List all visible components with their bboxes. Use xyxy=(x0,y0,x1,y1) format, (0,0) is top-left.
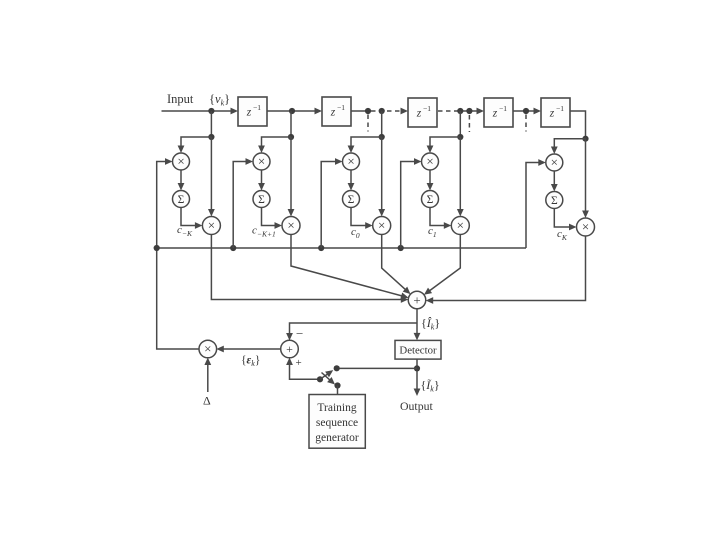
accumulator S4 (sigma) xyxy=(422,191,439,208)
svg-text:z: z xyxy=(492,108,498,120)
training sequence generator block xyxy=(309,395,365,449)
wire tap1 signal down to weight multiplier xyxy=(208,137,215,217)
label Input xyxy=(167,92,194,106)
wire branch to error comparator xyxy=(286,323,417,341)
wire W2 output to summer xyxy=(291,235,409,300)
svg-text:−: − xyxy=(296,326,303,341)
node tap5 jog junction xyxy=(582,136,588,142)
label {I_k} decision xyxy=(421,378,440,394)
delay element D2 (z^-1) xyxy=(322,97,351,126)
label coefficient tap 5 (c_K) xyxy=(557,228,568,242)
multiplier M4 (error x input) xyxy=(422,153,439,170)
accumulator S2 (sigma) xyxy=(253,191,270,208)
node tap4 jog junction xyxy=(457,134,463,140)
svg-text:×: × xyxy=(204,341,211,356)
svg-text:z: z xyxy=(246,107,252,119)
svg-text:Detector: Detector xyxy=(399,345,437,357)
wire M3 to accumulator xyxy=(348,170,355,191)
wire tap2 jog to multiplier xyxy=(258,137,291,153)
svg-text:×: × xyxy=(378,218,385,233)
wire feedback up to M2 xyxy=(233,158,253,248)
delay element D3 (z^-1) xyxy=(408,98,437,127)
label coefficient tap 4 (c_1) xyxy=(428,225,437,239)
svg-text:{εk}: {εk} xyxy=(241,355,260,369)
accumulator S5 (sigma) xyxy=(546,192,563,209)
wire S2 to weight multiplier xyxy=(262,208,283,229)
accumulator S1 (sigma) xyxy=(173,191,190,208)
wire S4 to weight multiplier xyxy=(430,208,451,229)
switch upper throw contact xyxy=(334,365,340,371)
delay element D1 (z^-1) xyxy=(238,97,267,126)
wire D4 to D5 xyxy=(513,108,541,115)
svg-text:+: + xyxy=(286,342,293,356)
node feedback junction tap4 xyxy=(398,245,404,251)
dashed continuation wire down xyxy=(367,115,369,132)
multiplier W5 (tap weight tap 5 (c_K)) xyxy=(577,218,595,236)
wire D1 to D2 xyxy=(267,108,322,115)
wire tap4 jog to multiplier xyxy=(427,137,461,153)
wire tap5 signal down to weight multiplier xyxy=(582,139,589,218)
svg-text:+: + xyxy=(413,293,420,308)
wire comparator to error scaler xyxy=(216,346,281,353)
node label {v_k} xyxy=(209,92,230,108)
node v_k junction xyxy=(208,108,214,114)
svg-text:Σ: Σ xyxy=(427,194,434,206)
detector block xyxy=(395,340,441,359)
wire S1 to weight multiplier xyxy=(181,208,202,229)
svg-text:{vk}: {vk} xyxy=(209,92,230,108)
label {eps_k} error xyxy=(241,355,260,369)
wire W3 output to summer xyxy=(382,235,411,295)
wire S3 to weight multiplier xyxy=(351,208,373,229)
node tap4 takeoff xyxy=(457,108,463,114)
wire D5 output to tap5 xyxy=(570,111,586,137)
svg-text:generator: generator xyxy=(315,432,359,444)
node after tap4 takeoff (dashed branch) xyxy=(466,108,472,114)
svg-text:Σ: Σ xyxy=(178,194,185,206)
dashed continuation wire down xyxy=(468,115,470,132)
label minus sign xyxy=(296,326,303,341)
comparator A2 (+/-) xyxy=(281,340,299,358)
wire lower contact to training generator xyxy=(337,386,339,395)
svg-text:Input: Input xyxy=(167,92,194,106)
wire detector output to switch upper contact xyxy=(337,367,417,369)
wire error scaler output up left side to M1 xyxy=(157,158,200,349)
svg-text:×: × xyxy=(457,218,464,233)
label coefficient tap 3 (c_0) xyxy=(351,226,360,240)
wire tap2 takeoff down xyxy=(290,111,292,137)
svg-text:{Ĩk}: {Ĩk} xyxy=(421,378,440,394)
wire tap1 takeoff down xyxy=(210,111,212,137)
multiplier M5 (error x input) xyxy=(546,154,563,171)
wire tap3 takeoff down xyxy=(381,111,383,137)
label plus sign xyxy=(296,357,302,369)
svg-text:z: z xyxy=(330,107,336,119)
multiplier M2 (error x input) xyxy=(253,153,270,170)
wire switch pole to comparator plus input xyxy=(286,358,320,380)
wire tap3 jog to multiplier xyxy=(348,137,382,153)
svg-text:Σ: Σ xyxy=(551,195,558,207)
wire D3 output (dashed section) xyxy=(438,108,484,115)
node feedback junction tap3 xyxy=(318,245,324,251)
multiplier W1 (tap weight tap 1 (c_-K)) xyxy=(202,217,220,235)
svg-text:Δ: Δ xyxy=(203,394,211,408)
wire error feedback bus xyxy=(157,247,526,249)
svg-text:z: z xyxy=(549,108,555,120)
svg-text:sequence: sequence xyxy=(316,417,358,429)
svg-text:Σ: Σ xyxy=(348,194,355,206)
svg-text:z: z xyxy=(416,108,422,120)
node tap3 jog junction xyxy=(379,134,385,140)
svg-text:×: × xyxy=(582,219,589,234)
wire tap4 signal down to weight multiplier xyxy=(457,137,464,217)
multiplier M1 (error x input) xyxy=(173,153,190,170)
wire M4 to accumulator xyxy=(427,170,434,191)
svg-text:Training: Training xyxy=(317,402,356,414)
svg-text:−1: −1 xyxy=(556,104,564,113)
multiplier M0 (error scaler) xyxy=(199,340,217,358)
wire W5 output to summer xyxy=(426,236,586,304)
wire W1 output to summer xyxy=(211,235,408,303)
summing junction A1 (+) xyxy=(408,291,426,309)
multiplier W3 (tap weight tap 3 (c_0)) xyxy=(373,217,391,235)
svg-text:{Îk}: {Îk} xyxy=(421,316,440,332)
wire feedback up to M3 xyxy=(321,158,342,248)
svg-text:×: × xyxy=(208,218,215,233)
node detector output branch xyxy=(414,365,420,371)
svg-text:×: × xyxy=(551,155,558,170)
svg-text:−1: −1 xyxy=(337,103,345,112)
label coefficient tap 2 (c_-K+1) xyxy=(252,225,276,239)
wire feedback up to M4 xyxy=(401,158,422,248)
svg-text:−1: −1 xyxy=(423,104,431,113)
wire detector output xyxy=(414,359,421,396)
svg-text:×: × xyxy=(347,154,354,169)
svg-text:×: × xyxy=(287,218,294,233)
wire D2 output (dashed section) xyxy=(351,108,408,115)
wire M5 to accumulator xyxy=(551,171,558,192)
node after D1 xyxy=(289,108,295,114)
wire tap1 jog to multiplier xyxy=(178,137,212,153)
wire W4 output to summer xyxy=(424,235,460,295)
svg-text:−1: −1 xyxy=(253,103,261,112)
label {I_k} estimate xyxy=(421,316,440,332)
multiplier M3 (error x input) xyxy=(343,153,360,170)
svg-text:Output: Output xyxy=(400,399,433,413)
svg-text:−1: −1 xyxy=(499,104,507,113)
switch arm toward lower contact xyxy=(322,373,336,385)
delay element D4 (z^-1) xyxy=(484,98,513,127)
label coefficient tap 1 (c_-K) xyxy=(177,224,193,238)
delay element D5 (z^-1) xyxy=(541,98,570,127)
wire tap5 jog to multiplier xyxy=(551,139,586,154)
svg-text:Σ: Σ xyxy=(258,194,265,206)
node tap3 takeoff xyxy=(379,108,385,114)
dashed continuation wire down xyxy=(525,115,527,132)
wire delta input xyxy=(204,358,211,393)
switch lower throw contact xyxy=(334,382,340,388)
wire M2 to accumulator xyxy=(258,170,265,191)
node feedback junction tap1 xyxy=(154,245,160,251)
wire S5 to weight multiplier xyxy=(554,209,576,231)
node after D4 (dashed branch) xyxy=(523,108,529,114)
wire M1 to accumulator xyxy=(178,170,185,191)
wire feedback up to M5 xyxy=(526,159,546,248)
label Output xyxy=(400,399,433,413)
node after D2 (dashed branch) xyxy=(365,108,371,114)
node feedback junction tap2 xyxy=(230,245,236,251)
wire tap3 signal down to weight multiplier xyxy=(378,137,385,217)
wire input to D1 xyxy=(162,108,239,115)
node tap1 jog junction xyxy=(208,134,214,140)
svg-text:×: × xyxy=(426,154,433,169)
multiplier W4 (tap weight tap 4 (c_1)) xyxy=(451,217,469,235)
svg-text:×: × xyxy=(177,154,184,169)
wire tap2 signal down to weight multiplier xyxy=(288,137,295,217)
accumulator S3 (sigma) xyxy=(343,191,360,208)
wire summer output to detector xyxy=(414,309,421,341)
svg-text:+: + xyxy=(296,357,302,369)
wire tap4 takeoff down xyxy=(459,111,461,137)
switch arm toward upper contact xyxy=(320,370,333,379)
switch pole contact xyxy=(317,376,323,382)
multiplier W2 (tap weight tap 2 (c_-K+1)) xyxy=(282,217,300,235)
node tap2 jog junction xyxy=(288,134,294,140)
svg-text:×: × xyxy=(258,154,265,169)
label delta xyxy=(203,394,211,408)
